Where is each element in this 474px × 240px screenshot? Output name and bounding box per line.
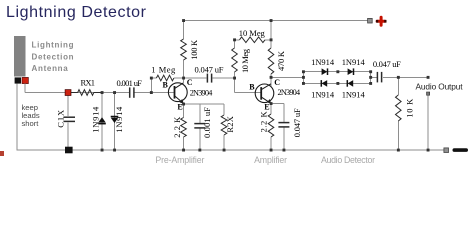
resistor RX1 [71,90,102,96]
wire: 10 Meg vertical leads x234.5 [234,40,236,93]
node: detector left connector [302,72,304,84]
wire: Q1 emitter side wire to 0.001uF and R2X [184,104,225,150]
terminal: V+ rail end square [368,18,373,23]
capacitor 0.047 uF (interstage coupling) [207,74,211,83]
svg-text:Lightning: Lightning [32,40,75,49]
svg-text:E: E [177,102,182,111]
svg-text:0.047 uF: 0.047 uF [195,64,224,74]
antenna ANT1 (gray body) [14,36,26,77]
svg-text:0.001 uF: 0.001 uF [202,107,212,138]
svg-text:Audio Detector: Audio Detector [321,155,375,165]
svg-text:Antenna: Antenna [32,64,69,73]
wire: 10 Meg horizontal leads y39.8 [235,39,272,41]
resistor R2X [221,115,227,135]
capacitor 0.047 uF (output coupling) [377,72,381,83]
resistor 10 K [396,95,402,121]
wire: top supply rail [184,20,368,22]
svg-text:1N914: 1N914 [311,57,335,67]
svg-text:1N914: 1N914 [342,57,366,67]
svg-text:Amplifier: Amplifier [254,155,287,165]
svg-text:1 Meg: 1 Meg [151,64,176,74]
terminal: ground rail end square [444,148,449,153]
wire: Q1 collector line and 100K leads [183,21,185,83]
node: detector right connector [370,72,372,84]
wire: feedback row y78 leads around 1 Meg and 0.047uF cap [151,77,234,79]
capacitor 0.047 uF (Q2 emitter bypass) [278,123,289,127]
wire: Q2 collector to detector left connector [271,76,303,78]
diode D6 1N914 (bottom row right, pointing left) [348,80,354,87]
resistor 10 Meg (vertical, feedback leg) [232,48,238,72]
capacitor 0.001 uF (Q1 emitter bypass) [194,124,205,128]
all plain wires [17,21,445,151]
svg-text:C: C [274,78,280,87]
resistor 1 Meg (Q1 feedback) [156,75,174,81]
capacitor 0.001 uF (input coupling) [130,87,134,97]
svg-text:short: short [22,119,40,128]
svg-text:100 K: 100 K [189,39,199,60]
svg-text:Lightning Detector: Lightning Detector [6,4,147,21]
svg-text:1N914: 1N914 [311,90,335,100]
diode D5 1N914 (bottom row left, pointing left) [322,80,328,87]
antenna label [32,40,75,73]
svg-text:Audio Output: Audio Output [416,81,464,91]
svg-text:10 Meg: 10 Meg [240,48,250,73]
wire: Q2 collector 470K line [270,21,272,87]
diode D1 1N914 (pointing up) [98,117,106,122]
svg-text:Pre-Amplifier: Pre-Amplifier [155,155,204,165]
wire: Q2 emitter side wire to 0.047uF [271,104,284,151]
svg-text:RX1: RX1 [81,77,96,87]
node: antenna junction (red square) [65,90,71,96]
svg-text:1N914: 1N914 [114,106,124,133]
wire: Q1 base tee up to feedback row [150,78,152,93]
svg-text:E: E [264,102,269,111]
svg-text:Detection: Detection [32,53,75,62]
transistor Q1 2N3904 [168,83,187,104]
wire: detector top row [303,71,370,73]
wire: Q1 emitter branch with 2.2K [183,104,185,150]
svg-text:2N3904: 2N3904 [278,88,301,97]
svg-text:470 K: 470 K [276,50,286,71]
svg-text:1N914: 1N914 [91,106,101,133]
svg-text:B: B [249,82,255,91]
wire: signal row antenna node to 0.001uF cap [25,92,129,94]
wire: C1X leads [67,93,69,151]
stray red mark at left edge [0,151,4,156]
resistor 470 K [268,48,274,74]
svg-text:C1X: C1X [56,110,66,128]
wire: Q2 emitter branch with 2.2K [270,104,272,151]
svg-text:R2X: R2X [225,116,235,132]
wire: Q2 base wire [235,92,262,94]
resistor 100 K [181,39,187,60]
resistor 2.2 K (Q2 emitter) [268,114,274,137]
node: C1X ground (black square) [65,147,73,154]
diode D4 1N914 (top row right, pointing right) [348,68,354,75]
wire: detector output row to cap and audio node [371,76,428,78]
antenna terminal black [15,77,21,83]
transistor Q2 2N3904 [255,84,274,104]
svg-text:0.001 uF: 0.001 uF [117,78,143,88]
wire: audio output drop [427,95,429,150]
terminal: audio output tap [427,92,430,95]
antenna terminal red [22,77,28,83]
svg-text:10 Meg: 10 Meg [239,28,266,38]
capacitor C1X [64,117,76,121]
wire: diode D1 branch [101,93,103,151]
battery minus symbol (black) [453,148,469,152]
wire: signal row cap to Q1 base bar [134,92,174,94]
svg-text:C: C [187,78,193,87]
svg-text:1N914: 1N914 [342,90,366,100]
svg-text:2N3904: 2N3904 [190,88,213,97]
resistor 2.2 K (Q1 emitter) [181,118,187,138]
svg-text:B: B [163,80,169,89]
wire: detector bottom row [303,82,370,84]
svg-text:2.2 K: 2.2 K [259,111,269,133]
wire: ground rail [17,149,445,151]
wire: diode D2 branch [114,93,116,151]
resistor 10 Meg (horizontal, feedback) [240,37,266,43]
svg-text:0.047 uF: 0.047 uF [373,59,401,69]
wire: black terminal drop to ground [16,84,18,150]
svg-text:2.2 K: 2.2 K [172,116,182,138]
wire: red terminal drop to signal row [24,84,26,93]
wire: 10K branch [397,77,399,150]
diode D2 1N914 (pointing down) [111,118,119,123]
diode D3 1N914 (top row left, pointing right) [322,68,328,75]
note: keep leads short [22,103,40,128]
svg-text:10 K: 10 K [404,98,414,118]
svg-text:0.047 uF: 0.047 uF [292,108,302,137]
battery plus symbol (red) [377,17,385,25]
